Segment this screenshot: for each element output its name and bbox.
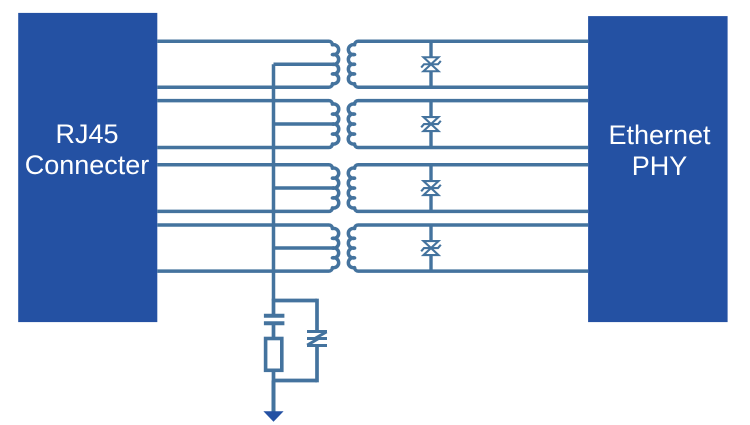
- wire bottom of HV cap branch: [274, 379, 318, 383]
- transformer T3 primary center tap: [274, 186, 334, 190]
- svg-text:Ethernet: Ethernet: [608, 120, 711, 150]
- resistor R1: [266, 339, 282, 371]
- transformer T4 secondary winding with wires to PHY: [348, 225, 588, 271]
- transformer T1 primary center tap: [274, 63, 334, 67]
- transformer T3 secondary winding with wires to PHY: [348, 165, 588, 212]
- Ethernet PHY label: [608, 120, 711, 181]
- TVS diode D4 across pair 4: [421, 225, 441, 271]
- transformer T2 primary center tap: [274, 122, 334, 126]
- Ethernet PHY block U1: [588, 16, 728, 322]
- capacitor C1: [264, 316, 285, 324]
- wire C1 to R1: [272, 323, 276, 340]
- HV capacitor C2 (chassis termination): [307, 332, 327, 346]
- transformer T3 primary winding with wires to RJ45: [157, 165, 338, 212]
- wire C2 to bottom junction: [315, 346, 319, 383]
- center-tap trunk wire: [272, 64, 276, 300]
- svg-text:RJ45: RJ45: [55, 119, 118, 149]
- RJ45 connector block J1: [18, 13, 157, 322]
- TVS diode D1 across pair 1: [421, 41, 441, 87]
- svg-text:Connecter: Connecter: [25, 150, 150, 180]
- chassis ground arrow: [263, 411, 283, 422]
- transformer T2 primary winding with wires to RJ45: [157, 101, 338, 148]
- wire R1 to ground junction: [272, 370, 276, 382]
- TVS diode D2 across pair 2: [421, 101, 441, 148]
- svg-text:PHY: PHY: [632, 151, 688, 181]
- wire to chassis ground: [272, 381, 276, 413]
- transformer T1 primary winding with wires to RJ45: [157, 41, 338, 87]
- transformer T2 secondary winding with wires to PHY: [348, 101, 588, 148]
- TVS diode D3 across pair 3: [421, 165, 441, 212]
- transformer T4 primary winding with wires to RJ45: [157, 225, 338, 271]
- wire from trunk to termination cap branch: [274, 299, 318, 303]
- transformer T4 primary center tap: [274, 246, 334, 250]
- wire trunk to capacitor C1: [272, 299, 276, 314]
- wire to HV capacitor C2: [315, 299, 319, 332]
- transformer T1 secondary winding with wires to PHY: [348, 41, 588, 87]
- RJ45 connector label: [25, 119, 150, 180]
